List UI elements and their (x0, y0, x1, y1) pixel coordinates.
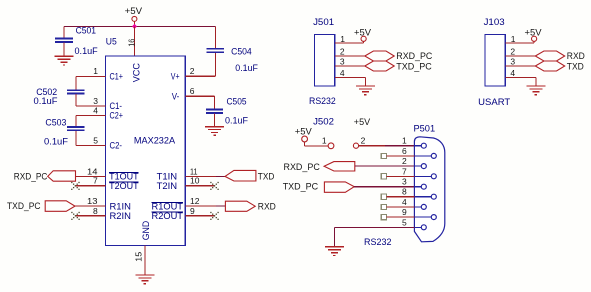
svg-text:4: 4 (93, 105, 98, 115)
svg-text:U5: U5 (106, 36, 117, 46)
svg-text:RXD_PC: RXD_PC (284, 162, 321, 172)
svg-text:V+: V+ (171, 71, 180, 81)
svg-text:8: 8 (93, 206, 98, 216)
svg-text:RS232: RS232 (309, 96, 336, 106)
svg-text:+5V: +5V (295, 127, 312, 137)
svg-text:C2-: C2- (110, 141, 123, 151)
svg-text:+5V: +5V (525, 28, 542, 38)
svg-text:3: 3 (93, 96, 98, 106)
svg-text:C1+: C1+ (110, 72, 124, 82)
svg-text:0.1uF: 0.1uF (34, 96, 59, 106)
svg-text:9: 9 (402, 207, 407, 217)
svg-text:C503: C503 (45, 117, 66, 127)
svg-text:2: 2 (190, 66, 195, 76)
svg-text:2: 2 (510, 47, 515, 57)
svg-text:+5V: +5V (354, 28, 371, 38)
svg-text:+5V: +5V (125, 6, 143, 16)
svg-text:5: 5 (93, 135, 98, 145)
svg-text:J103: J103 (484, 17, 505, 27)
svg-text:7: 7 (402, 166, 407, 176)
svg-text:8: 8 (402, 187, 407, 197)
svg-text:1: 1 (340, 34, 345, 44)
svg-text:R1IN: R1IN (110, 201, 132, 211)
svg-text:TXD_PC: TXD_PC (396, 61, 432, 71)
svg-text:3: 3 (510, 57, 515, 67)
svg-text:0.1uF: 0.1uF (225, 116, 249, 126)
svg-text:4: 4 (510, 68, 515, 78)
svg-text:15: 15 (133, 251, 143, 261)
svg-text:12: 12 (190, 196, 200, 206)
svg-text:2: 2 (402, 156, 407, 166)
svg-text:3: 3 (340, 57, 345, 67)
svg-text:TXD: TXD (258, 172, 275, 182)
svg-text:4: 4 (402, 197, 407, 207)
svg-text:10: 10 (190, 176, 200, 186)
svg-text:1: 1 (93, 66, 98, 76)
svg-text:C505: C505 (227, 97, 247, 107)
svg-text:6: 6 (190, 86, 195, 96)
svg-text:C501: C501 (76, 26, 96, 36)
svg-text:TXD_PC: TXD_PC (7, 201, 41, 211)
svg-text:RXD_PC: RXD_PC (396, 51, 432, 61)
svg-text:J501: J501 (313, 17, 334, 27)
svg-text:RXD: RXD (258, 201, 276, 211)
svg-text:J502: J502 (313, 117, 334, 127)
svg-text:R2IN: R2IN (110, 211, 132, 221)
svg-text:1: 1 (322, 136, 327, 146)
svg-text:RXD: RXD (567, 51, 585, 61)
svg-text:1: 1 (511, 34, 516, 44)
svg-text:4: 4 (340, 68, 345, 78)
svg-text:V-: V- (172, 91, 180, 101)
svg-text:13: 13 (87, 196, 98, 206)
svg-text:6: 6 (402, 146, 407, 156)
svg-text:MAX232A: MAX232A (134, 136, 175, 146)
svg-text:TXD_PC: TXD_PC (283, 181, 319, 191)
svg-text:1: 1 (402, 136, 407, 146)
svg-text:5: 5 (402, 217, 407, 227)
svg-text:VCC: VCC (131, 63, 141, 83)
svg-text:C1-: C1- (110, 101, 123, 111)
svg-text:USART: USART (478, 97, 511, 107)
svg-text:0.1uF: 0.1uF (44, 136, 69, 146)
svg-text:GND: GND (141, 220, 151, 240)
svg-text:0.1uF: 0.1uF (75, 46, 99, 56)
svg-text:9: 9 (190, 206, 195, 216)
svg-text:7: 7 (93, 176, 98, 186)
svg-text:C504: C504 (231, 47, 252, 57)
svg-text:2: 2 (361, 136, 366, 146)
svg-text:RS232: RS232 (364, 237, 392, 247)
svg-text:3: 3 (402, 177, 407, 187)
svg-text:TXD: TXD (567, 61, 584, 71)
svg-text:+5V: +5V (354, 117, 370, 127)
svg-text:C2+: C2+ (110, 111, 124, 121)
svg-text:P501: P501 (414, 124, 436, 134)
svg-text:RXD_PC: RXD_PC (14, 171, 48, 181)
svg-text:0.1uF: 0.1uF (235, 63, 258, 73)
svg-text:2: 2 (340, 47, 345, 57)
svg-text:T2IN: T2IN (157, 181, 178, 191)
svg-text:16: 16 (126, 39, 136, 47)
